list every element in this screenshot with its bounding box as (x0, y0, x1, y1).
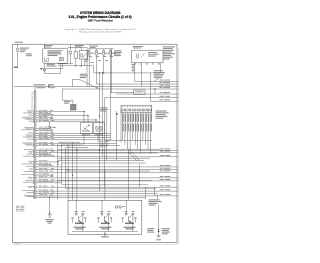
wire ground drop G101 (49, 197, 50, 215)
wire right-stack-top 2 (96, 82, 178, 84)
wire stub v154 (154, 187, 156, 196)
ignition coil driver 1 (72, 200, 86, 231)
wire PCM pin 21 (26, 165, 179, 167)
wire weave 9 (58, 160, 144, 162)
wire relay K3 drop2 (159, 63, 161, 73)
wire fuse3 drop (103, 58, 105, 73)
wire bend x88 (87, 115, 88, 122)
relay K3 inner text (148, 52, 159, 57)
wire PCM pin 18 (23, 155, 178, 157)
wire PCM pin 12 (27, 138, 110, 140)
ground stub S (48, 122, 56, 129)
diagram border frame (13, 44, 177, 242)
svg-text:Monday, December 18, 2000 10:: Monday, December 18, 2000 10:55PM (79, 31, 121, 34)
wire PCM pin 10 (25, 134, 110, 136)
relay K2 box (79, 51, 88, 60)
wire weave diag2 (132, 152, 140, 161)
PCM connector bar (34, 91, 36, 198)
splice S101 label (26, 53, 32, 56)
wire vertical drop 12 (145, 187, 147, 199)
module M2 (74, 52, 77, 59)
relay K1 contacts (45, 57, 48, 61)
wire PCM pin 15 (24, 149, 179, 151)
sensor TP symbol (83, 124, 90, 131)
wire right-stack-top 7 (150, 99, 178, 101)
ignition coil driver 2 (98, 200, 112, 231)
ignition coil driver 3 (122, 200, 136, 231)
sensor box TP (81, 123, 93, 134)
wire PCM pin 17 (27, 153, 51, 156)
wire PCM pin 9 (28, 132, 111, 134)
wire label y86.5 (34, 84, 56, 88)
wire fuse4 drop bus (109, 58, 111, 141)
fuse bank (88, 49, 115, 58)
C100 label (135, 91, 144, 92)
wire vert x60 (59, 63, 61, 73)
wire to C100 (110, 92, 133, 94)
wire vertical drop 7 (104, 170, 106, 201)
top right component label (163, 46, 175, 59)
ground G101 (48, 213, 52, 218)
wire fuse drop (17, 44, 19, 67)
wire M2 feed (75, 48, 77, 52)
sensor box EVP (93, 123, 104, 134)
wire bus v5 (149, 73, 151, 101)
diode D1 (43, 69, 46, 71)
junction box (43, 48, 68, 63)
svg-text:Copyright © 1998 Mitchell Repa: Copyright © 1998 Mitchell Repair Informa… (64, 28, 137, 31)
title line 2 (69, 15, 132, 19)
fuse F5 (17, 48, 19, 51)
solid-state symbol (60, 57, 64, 61)
wire bus v2 (102, 73, 103, 157)
fuse drop labels (85, 60, 108, 63)
wire PCM pin 25 (28, 176, 179, 179)
wire PCM pin 7 (24, 127, 51, 130)
wire weave 3 (62, 143, 84, 145)
wire relay K2 drop1 (80, 59, 82, 66)
wire PCM pin 27 (23, 181, 62, 183)
relay K3 coil (137, 54, 138, 59)
wire weave 5 (66, 147, 88, 149)
right mid text block (156, 111, 169, 119)
diode label (47, 64, 57, 67)
CKP right label (162, 228, 170, 234)
wire PCM pin 30 (26, 192, 157, 194)
wire weave 6 (58, 148, 160, 150)
wire vertical drop 11 (139, 165, 141, 188)
coil pack bottom bus (72, 232, 138, 236)
text under relay (154, 70, 165, 78)
module dark box (71, 105, 77, 111)
ground G103 label (156, 239, 161, 240)
ground G103 (157, 230, 161, 238)
wire M1 feed (69, 44, 71, 51)
coil pack bottom label (101, 235, 109, 238)
wire bend x84 (83, 111, 84, 123)
wire weave 10 (62, 162, 146, 164)
wire right-stack-top 4 (62, 87, 178, 89)
module dark box label (64, 101, 71, 103)
wire vertical drop 9 (120, 111, 122, 143)
sensor under-labels (82, 133, 104, 136)
wire PCM pin 1 (27, 110, 84, 112)
sensor drop A (83, 134, 85, 145)
wire fuse2 drop (95, 58, 97, 85)
wire weave 7 (62, 152, 158, 154)
wire fuse1 drop (88, 58, 90, 87)
wire PCM pin 6 (29, 120, 100, 122)
date line (79, 31, 121, 34)
wire vertical drop 1 (57, 144, 59, 200)
wire PCM pin 8 (21, 129, 53, 132)
wire fuse1b drop (86, 49, 88, 87)
relay K3 drop1 label (132, 64, 135, 71)
wire junction box feed (44, 44, 46, 48)
svg-text:1997 Ford Windstar: 1997 Ford Windstar (88, 18, 114, 22)
relay K2 coil (81, 53, 82, 57)
coil pack label (149, 199, 162, 205)
wire weave 12 (58, 180, 152, 182)
wire vertical drop 6 (76, 148, 78, 201)
wire bus v4 (106, 111, 108, 161)
wire M2 out (75, 58, 77, 66)
hot-at-all-times label (15, 42, 23, 43)
wire bottom bus y65.8 (58, 65, 85, 66)
sensor text right (100, 107, 108, 111)
wire bus v1 (99, 73, 100, 191)
wire PCM pin 31 (24, 194, 179, 197)
wire fuse4b drop (111, 49, 113, 93)
wire PCM pin 11 (23, 136, 111, 138)
sensor EVP symbols (95, 127, 102, 130)
wire y89 drop (62, 89, 73, 105)
wire vertical drop 5 (72, 142, 74, 200)
wire vertical drop 8 (116, 111, 118, 161)
wire PCM pin 24 (21, 174, 53, 177)
relay K2 switch (83, 53, 86, 57)
wire weave 14 (66, 188, 156, 190)
svg-text:3.0L, Engine Performance Circu: 3.0L, Engine Performance Circuits (1 of … (69, 15, 132, 19)
wire vertical drop 2 (61, 142, 63, 185)
connector C175 wires (122, 113, 151, 154)
relay K2 label (75, 45, 84, 47)
wire PCM pin 22 (29, 168, 179, 171)
title line 3 (88, 18, 114, 22)
wire right-stack-top 6 (105, 96, 179, 98)
coil symbols top (115, 206, 121, 209)
wire weave 4 (58, 145, 80, 147)
splice detail x155 (154, 78, 159, 93)
wire relay K2 drop2 (85, 59, 94, 73)
wire PCM pin 14 (26, 144, 120, 146)
module M1 (69, 51, 72, 54)
wire PCM pin 5 (26, 118, 96, 120)
wire weave 8 (58, 157, 150, 159)
junction box text (48, 50, 63, 56)
text x80 y74 (80, 74, 88, 78)
wire PCM pin 28 (27, 185, 178, 188)
wire PCM pin 26 (25, 179, 178, 181)
wire box right drop (62, 63, 64, 68)
wire bus y72.9 (94, 72, 161, 73)
relay K3 bottom pins (135, 63, 160, 64)
wire PCM pin 23 (24, 170, 178, 172)
connector C175 side label (116, 113, 118, 114)
to-list text block (16, 206, 25, 212)
junction dots weave (57, 150, 77, 176)
relay K3 box (132, 50, 164, 63)
wire relay K2 feed (80, 48, 82, 51)
connector C100 box (134, 90, 145, 95)
CKP left label (147, 228, 154, 232)
wire PCM pin 4 (22, 116, 53, 119)
relay K3 switch (141, 53, 145, 57)
title line 1 (80, 11, 121, 15)
wire PCM pin 19 (28, 160, 58, 163)
wire weave 2 (58, 141, 80, 143)
fuse row bus (88, 48, 114, 50)
page number smudge (14, 243, 21, 244)
wire right-stack-top 3 (14, 85, 179, 87)
wire below junction box (44, 63, 46, 68)
wire bend x96 (95, 119, 96, 122)
wire PCM pin 2 (23, 112, 51, 115)
relay K3 label (133, 46, 143, 48)
coil circle text (122, 205, 125, 208)
wire right-stack-top 1 (135, 80, 179, 82)
wire bend x100 (99, 121, 101, 124)
wire diagonal merge (73, 79, 98, 88)
wire PCM pin 20 (22, 163, 51, 166)
sensor EVP label (96, 130, 103, 133)
ground ref G100 (14, 67, 18, 68)
junction dot CKP (158, 231, 160, 233)
ignition switch label (114, 50, 122, 56)
coil pack box (68, 200, 142, 234)
wire relay K3 drop1 (134, 63, 136, 82)
wire PCM pin 13 (22, 142, 116, 144)
copyright line (64, 28, 137, 31)
wire PCM pin 3 (28, 114, 88, 116)
wire bottom bus y63.8 (58, 63, 73, 65)
wire weave 11 (66, 170, 150, 172)
sensor paragraph (100, 140, 109, 148)
page shadow (15, 48, 179, 244)
ground G101 label (45, 219, 54, 223)
wire M1 out (69, 54, 71, 64)
PCM pin numbers top (31, 92, 33, 110)
sensor drop B (97, 134, 99, 143)
wire PCM pin 32 (28, 196, 146, 198)
connector C on wire (48, 86, 49, 88)
wire vertical drop 4 (67, 144, 69, 200)
fuse row label (90, 46, 99, 48)
wire diode to bus (44, 71, 46, 74)
sensor TP label (82, 130, 90, 133)
connector C175 box (121, 105, 152, 112)
wire horiz y68.6 (42, 68, 63, 70)
wire vertical drop 3 (64, 148, 66, 189)
wire PCM pin 29 (22, 189, 178, 191)
wire weave 1 (105, 139, 152, 141)
connector C175 pins (122, 106, 152, 111)
wire top bus y47.6 (68, 47, 88, 49)
junction box label (44, 45, 53, 47)
wire weave 13 (62, 184, 148, 186)
wire horiz y73.6 (45, 73, 61, 75)
arrow left (40, 68, 42, 70)
wire relay K3 drop3 (141, 64, 143, 86)
wire PCM pin 16 (28, 151, 178, 154)
wire CKP drop (157, 194, 158, 231)
wire right-stack-top 5 (116, 92, 178, 94)
wire vertical drop 10 (128, 149, 130, 200)
wire bus v3 (104, 98, 106, 188)
wire weave diag1 (129, 152, 137, 161)
fuse F5 label (20, 48, 30, 53)
wire PCM top feed (34, 87, 36, 92)
